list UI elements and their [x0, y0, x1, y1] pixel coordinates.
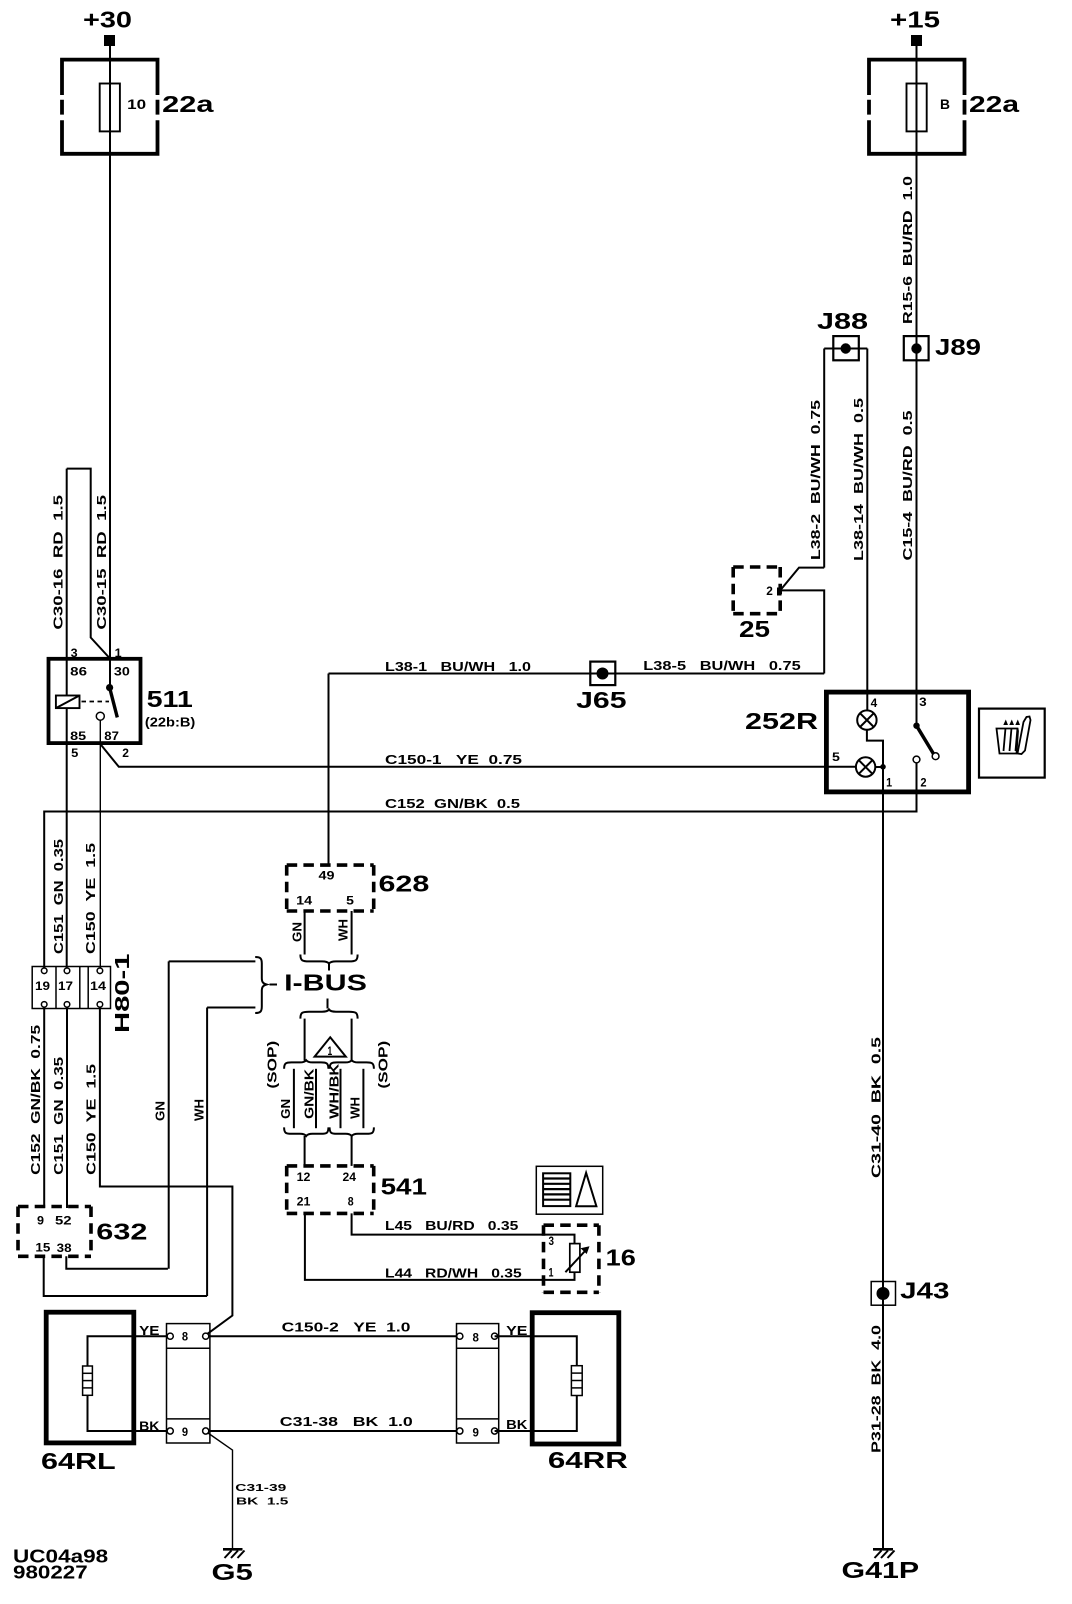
svg-text:(22b:B): (22b:B) — [145, 716, 195, 730]
svg-text:16: 16 — [606, 1245, 636, 1271]
svg-text:30: 30 — [114, 664, 130, 678]
svg-text:C31-38 BK 1.0: C31-38 BK 1.0 — [280, 1415, 413, 1429]
svg-text:WH: WH — [337, 919, 351, 941]
svg-text:C152 GN/BK 0.75: C152 GN/BK 0.75 — [29, 1025, 43, 1175]
svg-text:9: 9 — [37, 1214, 44, 1228]
svg-text:G41P: G41P — [842, 1557, 920, 1583]
svg-text:24: 24 — [343, 1170, 357, 1184]
svg-text:8: 8 — [473, 1330, 480, 1344]
svg-text:19: 19 — [35, 979, 50, 993]
svg-text:L38-14 BU/WH 0.5: L38-14 BU/WH 0.5 — [852, 398, 866, 561]
svg-text:9: 9 — [182, 1425, 188, 1439]
svg-text:64RL: 64RL — [41, 1448, 116, 1474]
svg-text:J43: J43 — [900, 1278, 949, 1304]
svg-text:9: 9 — [473, 1426, 480, 1440]
svg-text:C30-16 RD 1.5: C30-16 RD 1.5 — [52, 495, 66, 630]
svg-text:1: 1 — [328, 1044, 333, 1058]
svg-text:5: 5 — [832, 750, 840, 764]
svg-text:C151 GN 0.35: C151 GN 0.35 — [52, 839, 66, 954]
svg-text:1: 1 — [549, 1266, 554, 1280]
svg-text:P31-28 BK 4.0: P31-28 BK 4.0 — [870, 1325, 884, 1453]
svg-text:3: 3 — [549, 1234, 555, 1248]
svg-text:J89: J89 — [935, 334, 981, 360]
svg-text:L38-5 BU/WH 0.75: L38-5 BU/WH 0.75 — [643, 659, 800, 673]
svg-text:8: 8 — [348, 1195, 354, 1209]
svg-text:49: 49 — [319, 869, 335, 883]
svg-text:WH/BK: WH/BK — [328, 1064, 342, 1119]
svg-text:G5: G5 — [212, 1559, 254, 1585]
svg-text:86: 86 — [70, 664, 87, 678]
svg-text:22a: 22a — [162, 91, 214, 117]
svg-text:22a: 22a — [969, 91, 1019, 117]
svg-text:C150-1 YE 0.75: C150-1 YE 0.75 — [385, 753, 522, 767]
svg-text:2: 2 — [122, 746, 129, 760]
svg-text:J88: J88 — [817, 308, 868, 334]
svg-text:628: 628 — [379, 871, 430, 897]
svg-text:15: 15 — [35, 1241, 50, 1255]
svg-text:C150-2 YE 1.0: C150-2 YE 1.0 — [282, 1321, 411, 1335]
svg-text:C152 GN/BK 0.5: C152 GN/BK 0.5 — [385, 797, 520, 811]
svg-text:17: 17 — [58, 979, 73, 993]
svg-text:GN: GN — [154, 1101, 168, 1121]
svg-text:C30-15 RD 1.5: C30-15 RD 1.5 — [95, 495, 109, 630]
svg-text:WH: WH — [349, 1097, 363, 1119]
svg-text:(SOP): (SOP) — [266, 1041, 280, 1089]
svg-text:B: B — [940, 96, 950, 112]
svg-text:12: 12 — [297, 1170, 311, 1184]
svg-text:BK 1.5: BK 1.5 — [236, 1496, 289, 1508]
svg-text:C31-40 BK 0.5: C31-40 BK 0.5 — [870, 1037, 884, 1178]
svg-text:632: 632 — [96, 1219, 147, 1245]
svg-text:YE: YE — [139, 1324, 159, 1338]
svg-text:511: 511 — [147, 686, 193, 712]
svg-text:L44 RD/WH 0.35: L44 RD/WH 0.35 — [385, 1266, 522, 1280]
svg-text:H80-1: H80-1 — [112, 954, 134, 1034]
svg-text:L45 BU/RD 0.35: L45 BU/RD 0.35 — [385, 1219, 518, 1233]
svg-text:+15: +15 — [890, 7, 940, 33]
svg-text:C150 YE 1.5: C150 YE 1.5 — [84, 843, 98, 954]
svg-text:C15-4 BU/RD 0.5: C15-4 BU/RD 0.5 — [901, 410, 915, 560]
svg-text:WH: WH — [193, 1099, 207, 1121]
svg-text:38: 38 — [57, 1241, 72, 1255]
svg-text:5: 5 — [346, 893, 354, 907]
svg-text:GN/BK: GN/BK — [303, 1069, 317, 1119]
svg-text:L38-2 BU/WH 0.75: L38-2 BU/WH 0.75 — [809, 400, 823, 560]
svg-text:+30: +30 — [83, 7, 132, 33]
svg-text:21: 21 — [297, 1195, 311, 1209]
svg-text:2: 2 — [766, 584, 773, 598]
svg-text:L38-1 BU/WH 1.0: L38-1 BU/WH 1.0 — [385, 660, 531, 674]
svg-text:87: 87 — [104, 729, 119, 743]
svg-text:I-BUS: I-BUS — [284, 970, 367, 996]
svg-text:C150 YE 1.5: C150 YE 1.5 — [85, 1064, 99, 1175]
svg-text:BK: BK — [139, 1419, 159, 1433]
svg-text:5: 5 — [71, 746, 79, 760]
svg-text:C151 GN 0.35: C151 GN 0.35 — [52, 1057, 66, 1175]
svg-text:4: 4 — [871, 696, 878, 710]
svg-text:GN: GN — [279, 1099, 293, 1119]
svg-text:14: 14 — [296, 893, 312, 907]
svg-text:1: 1 — [886, 775, 892, 789]
svg-text:GN: GN — [291, 922, 305, 942]
svg-text:25: 25 — [739, 616, 770, 642]
svg-text:(SOP): (SOP) — [377, 1041, 391, 1089]
svg-text:541: 541 — [381, 1174, 428, 1200]
svg-text:52: 52 — [55, 1214, 72, 1228]
svg-text:R15-6 BU/RD 1.0: R15-6 BU/RD 1.0 — [901, 176, 915, 324]
svg-text:J65: J65 — [576, 687, 627, 713]
svg-text:2: 2 — [920, 775, 926, 789]
svg-text:8: 8 — [182, 1330, 188, 1344]
svg-text:980227: 980227 — [13, 1561, 88, 1582]
svg-text:10: 10 — [127, 96, 146, 112]
svg-text:C31-39: C31-39 — [235, 1482, 286, 1494]
svg-text:14: 14 — [90, 979, 106, 993]
svg-text:252R: 252R — [745, 708, 819, 734]
svg-text:3: 3 — [919, 695, 927, 709]
svg-text:85: 85 — [70, 729, 86, 743]
svg-text:64RR: 64RR — [548, 1447, 629, 1473]
